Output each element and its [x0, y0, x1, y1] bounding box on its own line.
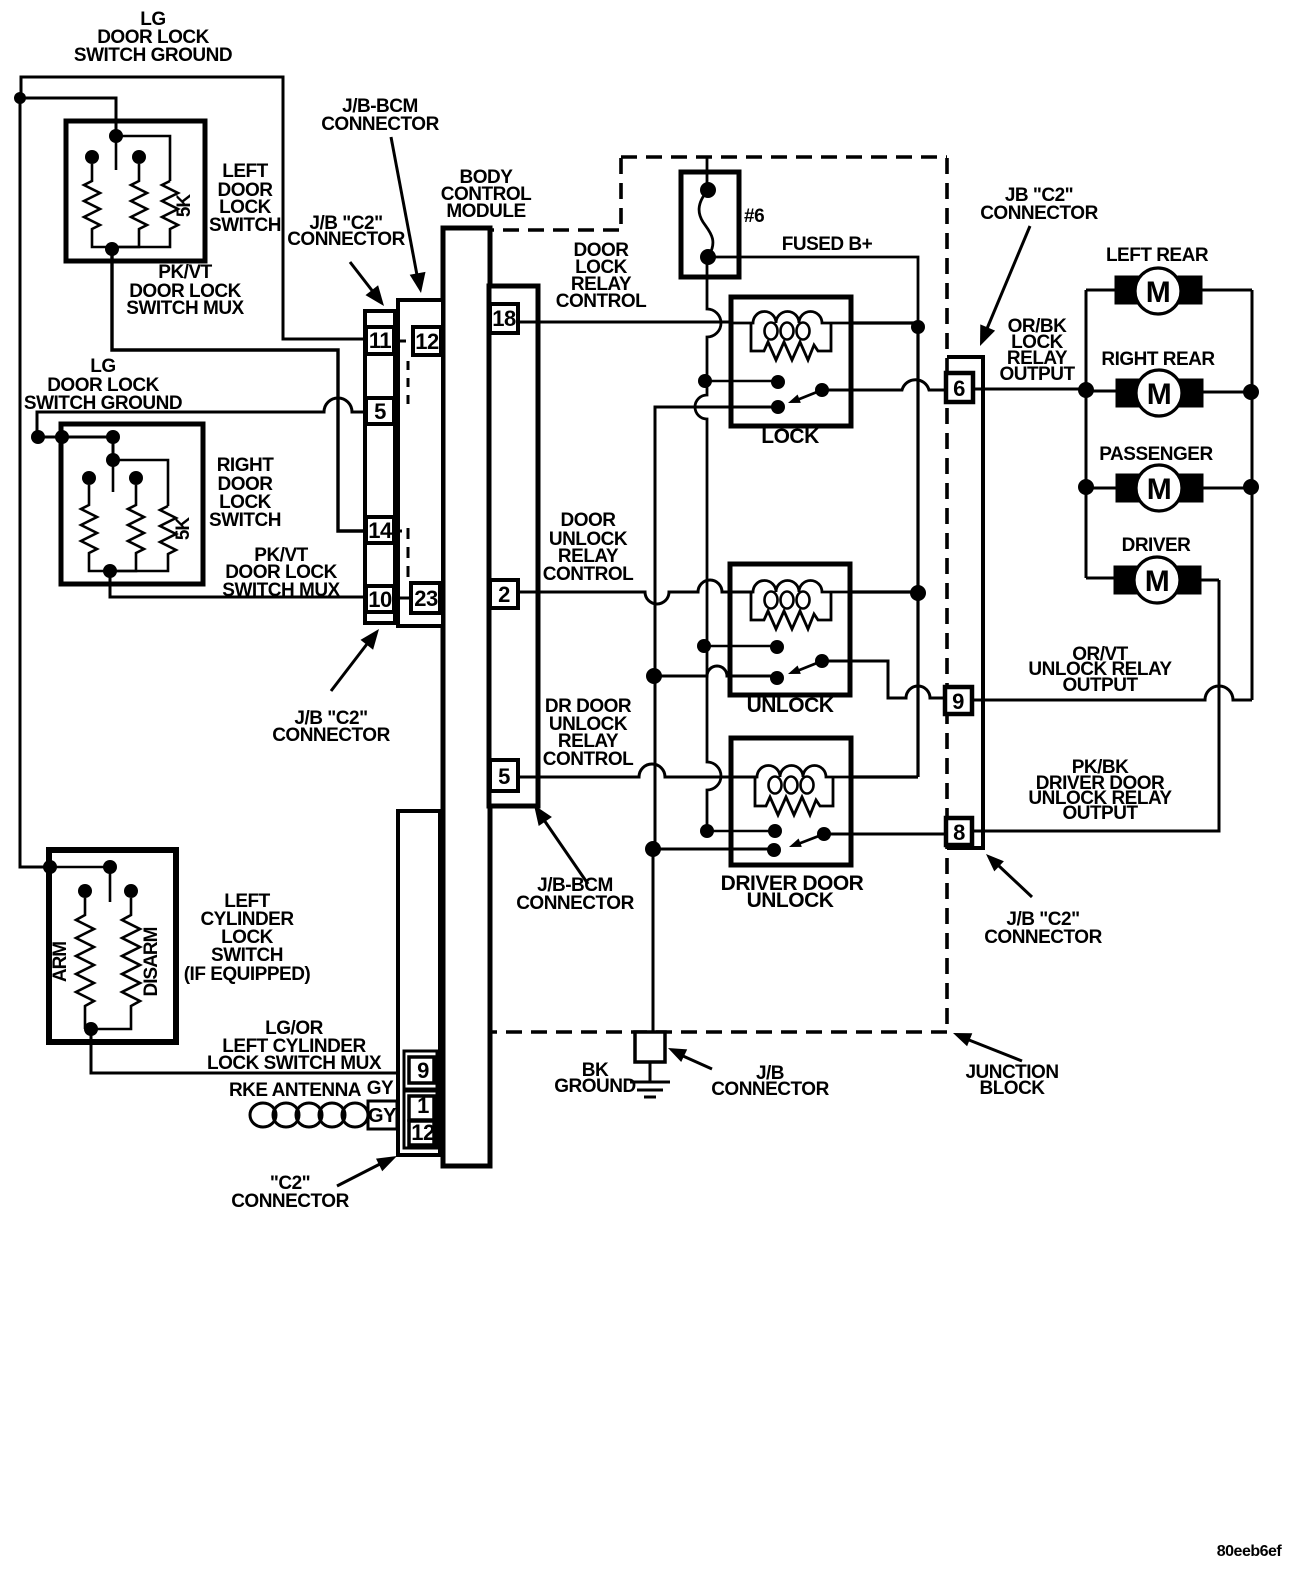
frame around pin 9 (bottom strip) [404, 1051, 437, 1089]
node B+ tap lock coil [911, 320, 925, 334]
svg-text:2: 2 [498, 582, 510, 607]
ground symbol [630, 1062, 670, 1097]
unlock relay arm [797, 661, 822, 671]
arrow J/B connector (bk ground) [683, 1056, 712, 1069]
svg-text:CONTROL: CONTROL [556, 291, 647, 312]
pin 12 [413, 327, 441, 355]
svg-text:9: 9 [952, 689, 964, 714]
driver door unlock relay box [731, 738, 851, 865]
wire driver motor leads [1086, 578, 1219, 580]
wire internal pole rail (right switch) [113, 460, 168, 506]
node unlock upper contact [770, 640, 784, 654]
J/B C2 connector strip [365, 311, 395, 623]
pin 23 [411, 583, 440, 613]
wire ground rail down to driver common [655, 676, 774, 849]
node cylinder switch ground entry [43, 860, 57, 874]
svg-text:DRIVER: DRIVER [1122, 535, 1192, 556]
lock relay arm [797, 390, 822, 400]
antenna coil [250, 1103, 276, 1127]
svg-text:SWITCH MUX: SWITCH MUX [126, 298, 244, 319]
junction block bottom dashed edge [490, 1030, 947, 1034]
node fuse rail tap driver [700, 824, 714, 838]
pin 18 [490, 304, 518, 333]
node right bus right rear tap [1243, 384, 1259, 400]
right door lock switch box [61, 424, 203, 584]
node lock upper contact [771, 375, 785, 389]
pin 6 [946, 373, 973, 402]
svg-text:10: 10 [368, 587, 392, 612]
svg-text:14: 14 [368, 518, 393, 543]
node fuse rail tap lock [698, 374, 712, 388]
svg-text:5K: 5K [173, 517, 194, 541]
arrow J/B-BCM connector (top) [391, 137, 417, 275]
wire PK/VT door lock switch mux (right door) to pin 10 [110, 571, 365, 597]
left door lock switch box [66, 121, 205, 261]
resistor left (right door switch) [81, 485, 110, 571]
wire door unlock relay control (pin 2 to unlock relay) [518, 580, 753, 604]
node right switch pin B [129, 471, 143, 485]
driver relay arm [798, 834, 824, 844]
node fuse rail tap unlock [697, 639, 711, 653]
svg-text:SWITCH: SWITCH [209, 510, 281, 531]
driver relay contact dots [645, 824, 831, 857]
unlock relay coil [730, 581, 851, 593]
pin 11 [366, 327, 394, 354]
pin numbers [368, 306, 516, 1145]
svg-text:CONNECTOR: CONNECTOR [272, 725, 390, 746]
node left bus right rear tap [1078, 382, 1094, 398]
svg-text:1: 1 [417, 1093, 429, 1118]
body control module outline [443, 228, 490, 1166]
svg-text:#6: #6 [744, 206, 764, 227]
svg-text:SWITCH: SWITCH [209, 215, 281, 236]
pin boxes [366, 304, 518, 1145]
wire ground rail to unlock common [655, 666, 777, 676]
driver relay parallel resistor [755, 777, 833, 815]
wire left rear motor left lead [1086, 289, 1115, 292]
wire OR/BK lock relay output pin 6 to left bus [973, 388, 1086, 391]
pin 2 [490, 580, 518, 608]
svg-text:CONTROL: CONTROL [543, 564, 634, 585]
GY box [368, 1101, 397, 1129]
svg-text:MODULE: MODULE [446, 201, 525, 222]
unlock relay parallel resistor [751, 592, 831, 629]
svg-text:SWITCH: SWITCH [211, 945, 283, 966]
svg-text:LG: LG [90, 356, 115, 377]
svg-text:GY: GY [368, 1105, 397, 1127]
svg-text:OUTPUT: OUTPUT [1062, 675, 1138, 696]
C2 connector bottom strip [398, 811, 440, 1155]
junction block top dashed edge [621, 155, 947, 159]
node cylinder switch mux junction [84, 1022, 98, 1036]
wire driver relay output to pin 8 [824, 833, 946, 836]
svg-text:RIGHT REAR: RIGHT REAR [1101, 349, 1215, 370]
J/B-BCM connector right strip [489, 286, 538, 806]
lock relay coil [731, 312, 851, 323]
pin 12 (bottom strip) [409, 1121, 434, 1145]
left cylinder lock switch box [49, 850, 176, 1042]
wire unlock relay output to pin 9 [822, 661, 945, 698]
node lock pivot [815, 383, 829, 397]
driver relay coil [731, 766, 851, 778]
node cylinder switch pole [103, 860, 117, 874]
driver motor [1114, 557, 1201, 603]
svg-text:18: 18 [492, 306, 516, 331]
JB C2 connector bracket [947, 357, 983, 848]
passenger motor [1116, 465, 1203, 511]
svg-text:SWITCH GROUND: SWITCH GROUND [24, 393, 182, 414]
pin 9 (bottom strip) [409, 1057, 434, 1083]
node right switch mux junction [103, 564, 117, 578]
arrow JB C2 connector (top right) [986, 226, 1030, 331]
node right switch box edge junction [55, 430, 69, 444]
resistor DISARM [91, 898, 140, 1029]
arrow J/B C2 connector (mid) [331, 644, 367, 691]
pin 5 (J/B C2) [366, 398, 394, 424]
wire left ground rail down to cylinder switch [20, 98, 50, 867]
svg-text:UNLOCK: UNLOCK [747, 694, 834, 717]
node ground rail tap unlock [646, 668, 662, 684]
svg-text:CONNECTOR: CONNECTOR [984, 927, 1102, 948]
node DISARM pin [124, 884, 138, 898]
pin 9 (junction) [945, 687, 972, 714]
svg-text:PK/VT: PK/VT [158, 262, 212, 283]
wire fuse top lead from junction top [706, 158, 709, 190]
unlock relay box [730, 564, 850, 695]
junction pin boxes 6 9 8 [945, 373, 973, 845]
node fuse top [700, 182, 716, 198]
resistor middle (right door switch) [110, 485, 144, 571]
wire LG/OR left cylinder lock switch mux to pin 9 [91, 1029, 398, 1073]
svg-text:LEFT REAR: LEFT REAR [1106, 245, 1209, 266]
junction block left dashed step [491, 158, 621, 230]
wire fuse rail lower segment to driver relay tap [707, 646, 721, 831]
wire unlock upper contact to fuse rail [704, 645, 777, 647]
wire left rear motor right lead [1202, 289, 1252, 292]
wire lock relay output to pin 6 [822, 380, 946, 390]
wire PK/BK driver door unlock relay output pin 8 to driver motor [972, 580, 1219, 831]
svg-text:LOCK: LOCK [761, 425, 819, 448]
wire FUSED B+ [710, 257, 918, 327]
node right bus passenger tap [1243, 479, 1259, 495]
svg-text:CONNECTOR: CONNECTOR [287, 229, 405, 250]
svg-text:ARM: ARM [50, 942, 71, 982]
node driver pivot [817, 827, 831, 841]
J/B connector square [635, 1032, 665, 1062]
arrow junction block [969, 1040, 1022, 1061]
resistor middle (left door switch) [112, 164, 147, 247]
svg-text:GY: GY [367, 1078, 394, 1099]
node left bus passenger tap [1078, 479, 1094, 495]
node left switch mux junction [105, 242, 119, 256]
svg-text:SWITCH GROUND: SWITCH GROUND [74, 45, 232, 66]
svg-text:80eeb6ef: 80eeb6ef [1217, 1543, 1283, 1560]
frame around pins 1,12 (bottom strip) [404, 1091, 437, 1148]
bus junction dots [1078, 382, 1259, 495]
node right switch pole [106, 453, 120, 467]
svg-text:CONNECTOR: CONNECTOR [321, 114, 439, 135]
node left switch pin B [132, 150, 146, 164]
wire internal pole rail [116, 136, 170, 181]
resistor left (left door switch) [84, 164, 112, 247]
svg-text:12: 12 [411, 1120, 435, 1145]
lock relay contact dots [698, 320, 925, 414]
svg-text:UNLOCK: UNLOCK [747, 889, 834, 912]
svg-text:M: M [1146, 276, 1171, 309]
svg-text:9: 9 [417, 1058, 429, 1083]
junction block right dashed edge [945, 158, 949, 1032]
svg-text:LEFT: LEFT [222, 161, 268, 182]
svg-text:5: 5 [374, 399, 386, 424]
svg-text:CONTROL: CONTROL [543, 749, 634, 770]
wire right rear motor leads [1086, 391, 1252, 392]
svg-text:SWITCH MUX: SWITCH MUX [222, 580, 340, 601]
dash tick right of pin 14 [396, 530, 402, 533]
node dots fuse [700, 182, 716, 265]
left rear motor [1115, 268, 1202, 314]
wire into right door switch [37, 437, 113, 460]
dashed stub above pin 23 [407, 528, 410, 580]
wire left motor bus [1085, 290, 1088, 578]
svg-text:OUTPUT: OUTPUT [1062, 803, 1138, 824]
svg-text:OUTPUT: OUTPUT [999, 364, 1075, 385]
pin 14 [366, 517, 394, 543]
pin 8 [946, 818, 972, 845]
wire LG door lock switch ground (right door) from pin 5 [37, 398, 365, 437]
wire lock coil right lead to B+ [851, 321, 918, 324]
svg-text:CONNECTOR: CONNECTOR [231, 1191, 349, 1212]
node lock lower contact [771, 400, 785, 414]
svg-text:PASSENGER: PASSENGER [1099, 444, 1213, 465]
arrow J/B-BCM connector (bottom) [544, 820, 588, 884]
svg-text:GROUND: GROUND [554, 1076, 635, 1097]
arrow J/B C2 connector (top) [350, 262, 374, 293]
dash link pin 10 to pin 23 [400, 597, 410, 600]
unlock relay contact dots [646, 585, 926, 685]
pin 1 (bottom strip) [409, 1096, 434, 1120]
svg-text:FUSED B+: FUSED B+ [782, 234, 873, 255]
node dots left door switch [14, 92, 146, 256]
dash link pin 11 to pin 12 [397, 340, 410, 343]
node driver upper contact [768, 824, 782, 838]
arrow J/B C2 connector (right) [999, 866, 1032, 897]
node unlock pivot [815, 654, 829, 668]
lock relay parallel resistor [751, 323, 831, 360]
node driver lower contact [767, 843, 781, 857]
node ground rail tap driver [645, 841, 661, 857]
wire right motor bus [1251, 290, 1254, 700]
wire passenger motor leads [1086, 487, 1252, 490]
wire driver coil right lead to B+ [851, 775, 918, 778]
svg-text:DISARM: DISARM [141, 927, 162, 996]
node right switch ground entry [31, 430, 45, 444]
svg-text:M: M [1147, 473, 1172, 506]
svg-text:CONNECTOR: CONNECTOR [711, 1079, 829, 1100]
wire driver upper contact to fuse rail [707, 830, 775, 832]
svg-text:CONNECTOR: CONNECTOR [980, 203, 1098, 224]
fuse box [681, 172, 739, 277]
svg-text:DOOR: DOOR [561, 510, 617, 531]
svg-text:RIGHT: RIGHT [217, 455, 275, 476]
node dots cylinder switch [43, 860, 138, 1036]
node dots right door switch [31, 430, 143, 578]
wire B+ vertical rail to relay coils [916, 327, 919, 777]
svg-text:11: 11 [369, 328, 392, 353]
J/B-BCM connector left strip [398, 300, 443, 626]
resistor 5K (right door switch) [110, 506, 176, 571]
svg-text:12: 12 [415, 329, 439, 354]
wire PK/VT door lock switch mux (left door) to pin 14 [112, 249, 365, 531]
resistor 5K (left door switch) [112, 181, 178, 247]
wire fuse bottom lead down with hop over pin18 wire [695, 257, 721, 646]
svg-text:RKE ANTENNA: RKE ANTENNA [229, 1080, 362, 1101]
svg-text:23: 23 [414, 586, 438, 611]
node ARM pin [78, 884, 92, 898]
svg-text:BLOCK: BLOCK [979, 1078, 1045, 1099]
wire lock relay common to ground rail corner [655, 407, 778, 676]
svg-text:M: M [1145, 565, 1170, 598]
node fuse bottom [700, 249, 716, 265]
wire door lock relay control (pin 18 to lock relay) [518, 322, 731, 323]
svg-text:6: 6 [953, 376, 965, 401]
svg-text:LOCK SWITCH MUX: LOCK SWITCH MUX [207, 1053, 382, 1074]
node B+ tap unlock coil [910, 585, 926, 601]
svg-text:5: 5 [498, 764, 510, 789]
node unlock lower contact [770, 671, 784, 685]
wire dr door unlock relay control (pin 5 to driver relay) [520, 764, 757, 777]
svg-text:8: 8 [953, 820, 965, 845]
lock relay box [731, 297, 851, 426]
wire LG door lock switch ground (left door) top run [21, 77, 365, 339]
svg-text:CONNECTOR: CONNECTOR [516, 893, 634, 914]
node left switch pole [109, 129, 123, 143]
svg-text:M: M [1147, 378, 1172, 411]
node right switch pin A [82, 471, 96, 485]
wire ground rail down to BK ground [652, 849, 655, 1032]
wire internal pole rail (cylinder switch) [50, 867, 110, 902]
node left ground rail junction [14, 92, 26, 104]
dashed stub below pin 12 [407, 361, 410, 409]
wire unlock coil right lead to B+ [851, 590, 918, 593]
wire lock upper contact to fuse rail [705, 380, 778, 382]
node right switch top junction [106, 430, 120, 444]
pin 5 (BCM lower) [490, 760, 518, 791]
svg-text:(IF EQUIPPED): (IF EQUIPPED) [184, 964, 311, 985]
node left switch pin A [85, 150, 99, 164]
resistor ARM [76, 898, 94, 1029]
arrow C2 connector (bottom) [337, 1164, 380, 1186]
svg-text:5K: 5K [174, 194, 195, 218]
wire OR/VT unlock relay output right bus to pin 9 [972, 686, 1252, 700]
wire from left rail dot into left door switch [20, 98, 116, 136]
right rear motor [1116, 370, 1203, 416]
fuse element S-curve [699, 190, 713, 257]
pin 10 [366, 586, 394, 612]
